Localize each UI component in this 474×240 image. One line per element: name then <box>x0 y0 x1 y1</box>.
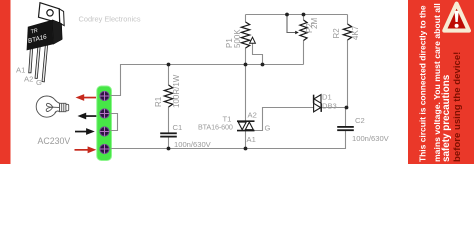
package pin label G <box>36 78 42 87</box>
warning banner line 4 <box>452 52 463 162</box>
svg-text:A1: A1 <box>247 135 256 144</box>
junction bottom rail triac A1 <box>244 147 248 151</box>
arrow red left (terminal 1) <box>76 94 97 101</box>
label DB3 <box>322 102 337 111</box>
label T1 <box>223 115 232 124</box>
watermark Codrey Electronics <box>79 15 141 24</box>
junction node X triac branch <box>244 63 248 67</box>
tab hole <box>47 10 53 16</box>
wire terminal1 to node X rail <box>111 65 304 96</box>
svg-text:Codrey Electronics: Codrey Electronics <box>79 15 141 24</box>
wire top rail <box>246 15 348 65</box>
label triac pin A2 <box>248 110 257 119</box>
label triac pin A1 <box>247 135 256 144</box>
terminal block X1 <box>97 86 112 161</box>
label 100R/1W <box>172 74 181 108</box>
capacitor C2 <box>337 126 354 131</box>
junction diac R2 C2 node <box>345 106 349 110</box>
label P2 <box>305 23 314 33</box>
body side face <box>53 20 63 45</box>
svg-text:100n/630V: 100n/630V <box>352 134 390 143</box>
body front face <box>27 20 54 51</box>
arrow red right (terminal 4) <box>75 146 97 153</box>
svg-text:500K: 500K <box>233 29 242 48</box>
wire C2 top lead <box>345 108 347 127</box>
tab front face <box>39 3 60 24</box>
junction node X R1 tap <box>167 63 171 67</box>
junction top rail P2 wiper <box>285 13 289 17</box>
svg-text:4K7: 4K7 <box>351 25 360 40</box>
svg-text:D1: D1 <box>322 93 332 102</box>
svg-text:A1: A1 <box>16 66 25 75</box>
svg-text:safety precautions: safety precautions <box>441 74 452 162</box>
resistor R2 <box>343 24 351 40</box>
warning triangle icon <box>444 4 469 31</box>
diac D1 <box>314 95 322 112</box>
wire R2 to diac node <box>347 40 349 108</box>
tab side face <box>59 9 64 26</box>
svg-text:This circuit is connected dire: This circuit is connected directly to th… <box>418 5 428 162</box>
potentiometer P1 <box>241 22 262 65</box>
legs <box>29 44 48 82</box>
label D1 <box>322 93 332 102</box>
warning banner line 3 <box>441 74 452 162</box>
junction bottom rail C1 <box>167 147 171 151</box>
wire triac main leads <box>245 65 247 149</box>
resistor R1 <box>164 85 172 107</box>
label R2 <box>332 28 341 39</box>
svg-text:R2: R2 <box>332 28 341 39</box>
svg-text:100n/630V: 100n/630V <box>174 140 212 149</box>
AC230V label <box>38 136 71 146</box>
svg-text:C2: C2 <box>355 116 365 125</box>
arrow black left (terminal 2) <box>78 113 98 120</box>
label 4K7 <box>351 25 360 40</box>
warning banner line 1 <box>418 5 428 162</box>
triac T1 <box>237 121 255 130</box>
svg-text:BTA16-600: BTA16-600 <box>198 123 233 132</box>
left red border bar <box>0 0 11 164</box>
label C2 <box>355 116 365 125</box>
potentiometer P2 <box>287 15 307 41</box>
svg-text:AC230V: AC230V <box>38 136 71 146</box>
label C1 <box>173 123 183 132</box>
svg-text:100R/1W: 100R/1W <box>172 74 181 108</box>
label C1 value 100n/630V <box>174 140 212 149</box>
label R1 <box>154 96 163 107</box>
svg-text:2M: 2M <box>310 18 319 29</box>
svg-text:G: G <box>265 124 271 133</box>
lamp bulb <box>36 96 69 117</box>
svg-text:C1: C1 <box>173 123 183 132</box>
capacitor C1 <box>160 132 177 137</box>
label 500K <box>233 29 242 48</box>
wire R1 leads <box>168 65 170 149</box>
label P1 <box>225 38 234 48</box>
warning banner <box>408 0 474 164</box>
svg-text:A2: A2 <box>248 110 257 119</box>
junction top rail P2 top <box>302 13 306 17</box>
wire bracket terminals 2-3 <box>111 114 118 131</box>
wire gate network <box>255 108 314 131</box>
svg-text:G: G <box>36 78 42 87</box>
label BTA16-600 <box>198 123 233 132</box>
svg-text:A2: A2 <box>24 75 33 84</box>
arrow black right (terminal 3) <box>75 128 95 135</box>
svg-text:DB3: DB3 <box>322 102 337 111</box>
package pin label A1 <box>16 66 25 75</box>
label triac pin G <box>265 124 271 133</box>
junction node X wiper <box>261 63 265 67</box>
svg-text:before using the device!: before using the device! <box>452 52 463 162</box>
wire bottom rail terminal4 to C2 <box>111 131 346 149</box>
warning banner line 2 <box>432 3 442 162</box>
label 2M <box>310 18 319 29</box>
wire diac to node <box>321 107 346 109</box>
svg-text:R1: R1 <box>154 96 163 107</box>
label C2 value 100n/630V <box>352 134 390 143</box>
TO-220 package TR BTA16 <box>27 3 65 82</box>
package pin label A2 <box>24 75 33 84</box>
